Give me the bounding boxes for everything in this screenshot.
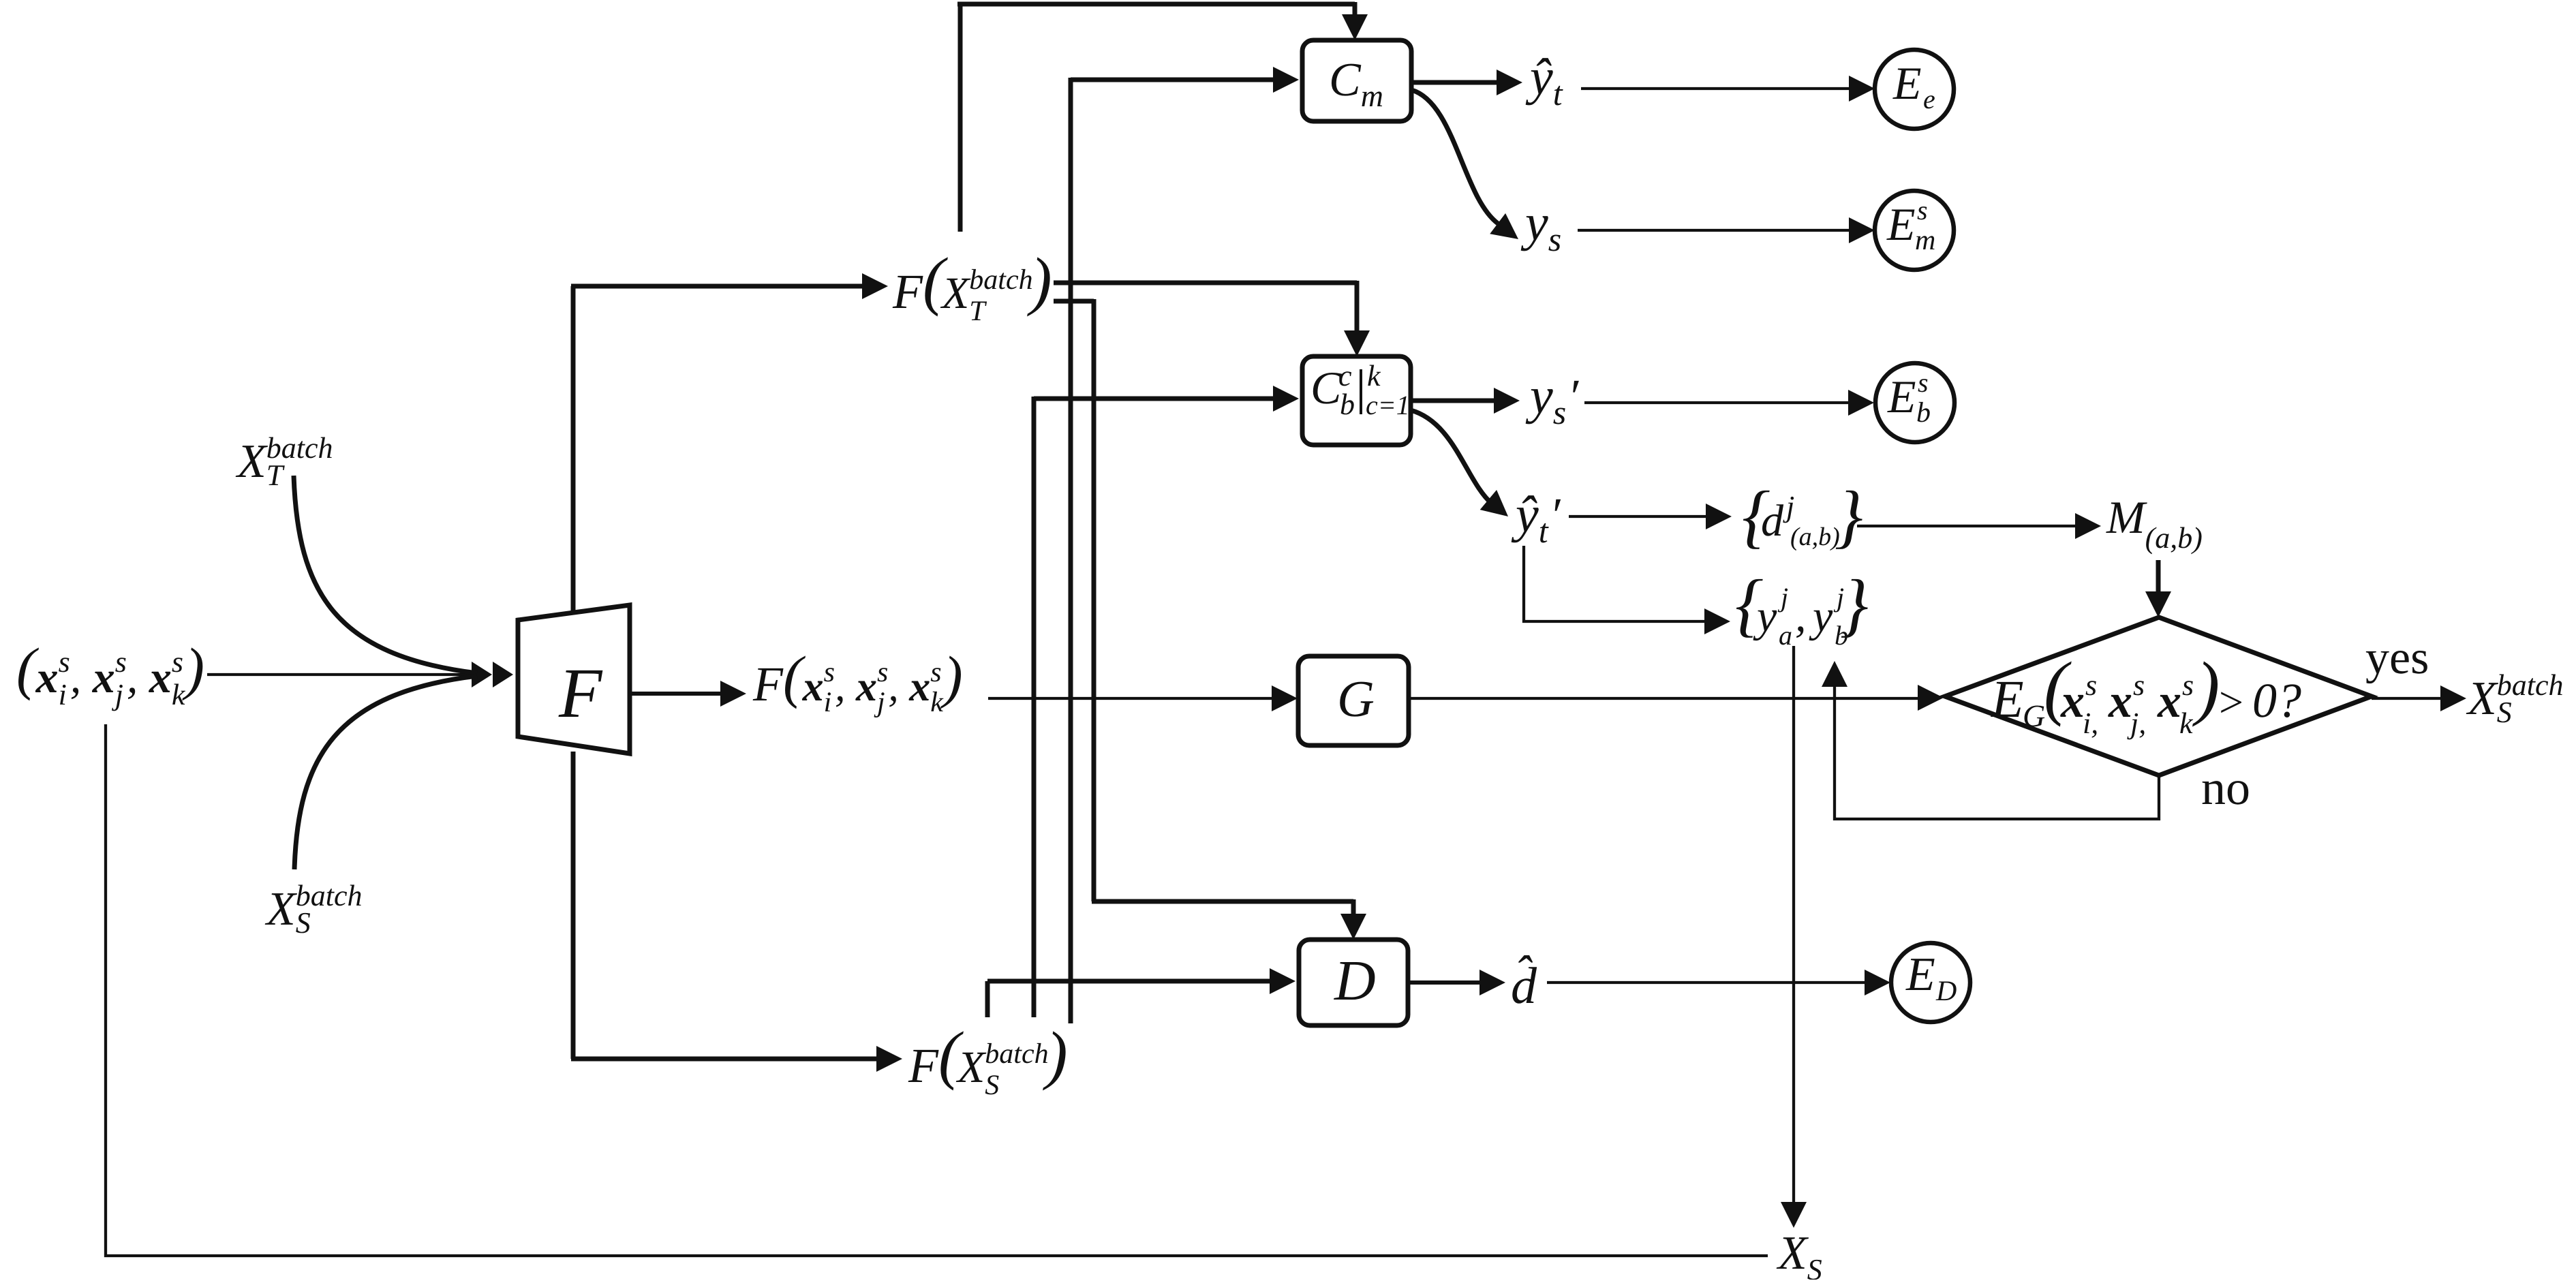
svg-text:batch: batch	[969, 264, 1032, 296]
svg-text:(a,b): (a,b)	[1790, 523, 1840, 551]
svg-text:): )	[1043, 1018, 1068, 1091]
svg-text:′: ′	[1550, 488, 1561, 542]
svg-text:x: x	[855, 664, 877, 710]
svg-text:s: s	[2085, 668, 2097, 702]
svg-text:M: M	[2106, 491, 2147, 543]
svg-text:i: i	[59, 678, 67, 711]
svg-text:x: x	[149, 653, 172, 702]
svg-text:C: C	[1329, 54, 1362, 106]
svg-text:): )	[1027, 244, 1052, 317]
svg-text:X: X	[264, 883, 298, 936]
svg-text:D: D	[1935, 976, 1957, 1007]
svg-text:S: S	[1807, 1253, 1822, 1280]
svg-text:E: E	[1905, 948, 1935, 1001]
svg-text:no: no	[2201, 760, 2250, 815]
svg-text:,: ,	[70, 653, 82, 702]
svg-text:}: }	[1835, 477, 1863, 555]
svg-text:F: F	[892, 264, 923, 319]
svg-text:C: C	[1310, 362, 1342, 414]
svg-text:,: ,	[835, 664, 846, 710]
svg-text:c=1: c=1	[1366, 390, 1410, 420]
svg-text:x: x	[802, 664, 824, 710]
svg-text:(a,b): (a,b)	[2145, 521, 2203, 555]
svg-text:t: t	[1553, 74, 1563, 112]
svg-text:y: y	[1520, 194, 1548, 251]
svg-text:b: b	[1916, 397, 1931, 429]
svg-text:s: s	[1917, 195, 1928, 226]
svg-text:T: T	[969, 296, 987, 327]
svg-text:s: s	[824, 657, 835, 688]
svg-text:ŷ: ŷ	[1511, 486, 1539, 543]
svg-text:i,: i,	[2083, 707, 2098, 740]
svg-text:i: i	[824, 687, 832, 718]
svg-text:s: s	[1918, 367, 1929, 398]
svg-text:E: E	[1887, 371, 1916, 422]
svg-text:m: m	[1361, 78, 1383, 113]
svg-text:d: d	[1761, 496, 1784, 546]
svg-text:E: E	[1892, 57, 1922, 109]
svg-text:X: X	[235, 435, 269, 488]
svg-text:k: k	[2179, 707, 2194, 740]
svg-text:): )	[940, 644, 963, 709]
svg-text:batch: batch	[985, 1038, 1048, 1070]
svg-text:k: k	[930, 687, 944, 718]
svg-text:x: x	[35, 653, 59, 702]
svg-text:x: x	[2108, 675, 2132, 728]
svg-text:,: ,	[127, 653, 138, 702]
svg-text:s: s	[2182, 668, 2194, 702]
svg-text:X: X	[940, 268, 971, 318]
svg-text:s: s	[2133, 668, 2145, 702]
svg-text:x: x	[2060, 675, 2085, 728]
svg-text:x: x	[908, 664, 930, 710]
svg-text:m: m	[1915, 225, 1935, 256]
svg-text:k: k	[172, 678, 186, 711]
svg-text:S: S	[296, 906, 311, 940]
svg-text:x: x	[2157, 675, 2181, 728]
svg-text:s: s	[930, 657, 941, 688]
svg-text:,: ,	[888, 664, 899, 710]
svg-text:′: ′	[1567, 369, 1579, 424]
svg-text:e: e	[1923, 84, 1935, 114]
svg-text:s: s	[1548, 220, 1561, 258]
svg-text:k: k	[1367, 359, 1381, 392]
svg-text:): )	[181, 636, 204, 701]
svg-text:x: x	[92, 653, 115, 702]
svg-text:F: F	[908, 1038, 939, 1093]
svg-text:s: s	[1553, 393, 1566, 431]
svg-text:0?: 0?	[2252, 673, 2301, 728]
svg-text:b: b	[1340, 388, 1355, 421]
svg-text:}: }	[1840, 566, 1869, 644]
svg-text:s: s	[115, 645, 127, 679]
svg-text:G: G	[2023, 698, 2045, 733]
svg-text:,: ,	[1795, 591, 1807, 641]
svg-text:X: X	[1776, 1227, 1809, 1280]
svg-text:ˆ: ˆ	[1514, 946, 1533, 1000]
svg-text:s: s	[877, 657, 888, 688]
svg-text:S: S	[2497, 696, 2512, 729]
svg-text:ŷ: ŷ	[1525, 48, 1553, 106]
svg-text:s: s	[59, 645, 70, 679]
svg-text:s: s	[172, 645, 183, 679]
svg-text:j,: j,	[2127, 707, 2146, 740]
svg-text:X: X	[955, 1042, 987, 1092]
svg-text:a: a	[1779, 620, 1792, 651]
svg-text:T: T	[266, 459, 286, 492]
svg-text:y: y	[1525, 367, 1553, 424]
svg-text:D: D	[1334, 949, 1376, 1013]
svg-text:E: E	[1886, 198, 1916, 250]
svg-text:yes: yes	[2365, 632, 2429, 684]
svg-text:G: G	[1337, 670, 1375, 728]
svg-text:X: X	[2466, 673, 2499, 725]
svg-text:y: y	[1809, 591, 1833, 641]
svg-text:y: y	[1753, 591, 1777, 641]
svg-text:E: E	[1991, 669, 2024, 728]
svg-text:>: >	[2216, 678, 2245, 726]
svg-text:t: t	[1539, 512, 1549, 550]
svg-text:F: F	[752, 657, 784, 711]
svg-text:S: S	[985, 1070, 999, 1101]
svg-text:F: F	[558, 654, 603, 732]
